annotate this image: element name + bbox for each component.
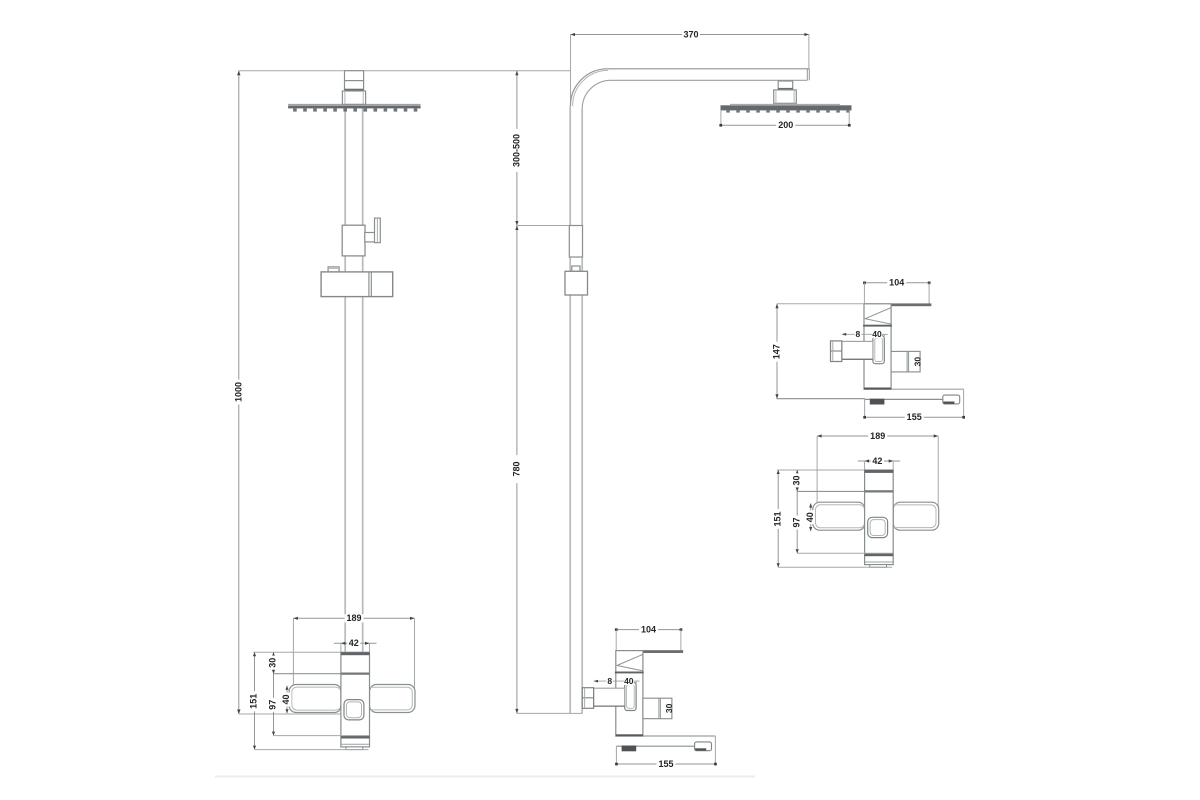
detail view: mixer side (top right) xyxy=(831,278,966,422)
nozzle ticks (side) xyxy=(726,110,850,112)
front mixer of left view xyxy=(249,613,415,749)
slider holder (side) xyxy=(565,271,588,295)
top arm (side) xyxy=(607,69,809,81)
svg-text:147: 147 xyxy=(771,344,781,359)
wall bracket (side) xyxy=(569,226,582,258)
slider neck (side) xyxy=(572,266,580,271)
diverter body (front) xyxy=(342,225,365,256)
svg-text:300-500: 300-500 xyxy=(511,134,521,167)
dim 1000 vertical line xyxy=(237,71,240,714)
slider clip tab xyxy=(328,267,339,272)
head plate (side) xyxy=(721,104,852,110)
ceiling connector top section xyxy=(345,71,364,91)
shared extension line y=70.7 (top datum) xyxy=(239,70,571,72)
wall pipe (side view) xyxy=(570,106,582,714)
slider bar xyxy=(321,272,393,297)
arm bend curves xyxy=(570,69,610,109)
svg-text:780: 780 xyxy=(511,461,521,476)
dim 1000 label xyxy=(234,380,244,405)
extension line at pipe bottom xyxy=(517,712,582,714)
diverter neck xyxy=(365,233,375,242)
dim 370 xyxy=(571,29,809,110)
diverter knob xyxy=(375,218,381,243)
faint artifact line xyxy=(215,776,755,778)
svg-text:370: 370 xyxy=(683,29,698,39)
spout bottom extension (top-right detail) xyxy=(776,398,865,400)
extension line at bracket top xyxy=(517,225,569,227)
dim 780 xyxy=(511,226,521,714)
dim 147 (top-right detail) xyxy=(771,304,864,399)
ceiling connector flare xyxy=(342,91,365,104)
detail view: mixer front (right middle) xyxy=(772,431,938,567)
side mixer of middle view xyxy=(582,624,717,768)
riser pipe (front view) xyxy=(345,109,363,653)
shower head plate (front) xyxy=(288,104,421,108)
svg-text:200: 200 xyxy=(778,120,793,130)
dim 1000 bottom extension line xyxy=(239,713,344,715)
dim 300-500 xyxy=(511,71,521,226)
svg-text:1000: 1000 xyxy=(234,382,244,402)
head flare (side) xyxy=(774,90,797,103)
head stem (side) xyxy=(778,81,793,90)
nozzle ticks (front) xyxy=(293,108,417,111)
dim 200 xyxy=(719,111,850,131)
